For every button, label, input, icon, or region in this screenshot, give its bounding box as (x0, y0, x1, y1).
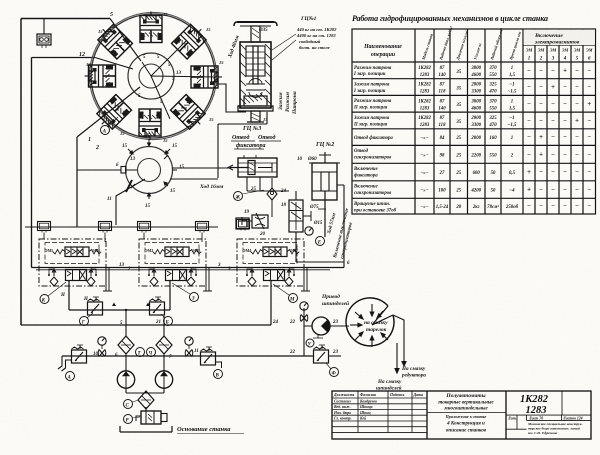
wire pump to lube ring (330, 325, 349, 327)
wire pump risers (126, 310, 164, 371)
solenoid EM1 (138, 222, 151, 233)
valve panel 2 (139, 239, 212, 291)
callout B (161, 314, 173, 326)
lube ring arrows (350, 304, 388, 347)
wire right riser to bus (296, 185, 344, 268)
title block org (527, 422, 584, 435)
pump 2 (155, 371, 172, 388)
chuck cylinder 45 (172, 21, 209, 58)
check valve diamond 24 (267, 178, 277, 217)
small valve box 20 (236, 218, 249, 229)
valve panel 3 (237, 239, 310, 291)
wire from chuck to GC1 bottom (216, 84, 246, 112)
flow arrows on header (112, 303, 150, 307)
title block sheet row (507, 416, 583, 420)
wire distributor feed from left riser (77, 169, 121, 171)
relief valve A (62, 345, 87, 381)
solenoid EM3 (38, 222, 51, 233)
label na smazku shpindeley (376, 379, 402, 392)
gauge with shutoff right (185, 337, 199, 357)
chuck cylinder 135 (95, 21, 132, 58)
chuck cylinder 90 (140, 12, 162, 43)
lube distributor ring (346, 298, 394, 346)
callout R (124, 415, 141, 424)
callout M (273, 284, 298, 303)
wire bus line 13 (32, 267, 345, 269)
wire left outer supply line (21, 19, 110, 326)
callout Zh circle (234, 190, 265, 201)
rotated net label vkl sinhr (333, 207, 354, 259)
tank bracket osnovanie (120, 426, 172, 432)
callout Ch (147, 348, 156, 357)
hub radial lines (142, 41, 216, 119)
wire fixator feeds (170, 168, 289, 191)
wire diagonal from line 5 into chuck hub (110, 19, 141, 62)
filter 6 (118, 336, 134, 354)
accumulator component 26 (37, 19, 51, 49)
label otvod otvod fixatora (232, 134, 276, 149)
callout A (101, 117, 119, 135)
relief valve B (150, 297, 165, 315)
wire main drain line (62, 355, 314, 357)
chuck cylinder 180 (85, 65, 116, 87)
chuck cylinder 270 (139, 109, 161, 140)
cylinder GC1 assembly (234, 22, 277, 122)
wire drain to lube ring (329, 355, 342, 357)
solenoid EM5 (99, 222, 112, 233)
hub pin labels 5 (138, 55, 175, 105)
node 5 junction (125, 309, 127, 311)
label privod shpindeley (321, 293, 349, 307)
shaft tick on diagonal (126, 180, 132, 192)
relief valve G (88, 297, 103, 315)
callout T (136, 348, 145, 357)
wire chuck drain diagonal to panel rail (77, 87, 140, 227)
distributor small circle (126, 147, 173, 194)
annotation GC1 force note (296, 16, 337, 50)
title block frame (332, 391, 591, 439)
throttle block 19 (242, 213, 268, 229)
callout K (40, 282, 66, 304)
filter 7 (156, 336, 172, 354)
relief valve V (201, 347, 223, 379)
fixator cylinder (228, 155, 277, 177)
wire distributor diagonal drain (116, 179, 145, 225)
wire line 22 horizontal (21, 324, 271, 326)
wire pump suction manifold (126, 388, 164, 393)
title block middle texts (438, 393, 494, 434)
callout F (326, 363, 339, 377)
solenoid EM2 (237, 220, 250, 231)
wire panel1 drain drop (68, 281, 70, 310)
wire panel3 drain drop (270, 281, 272, 325)
title block doc number (520, 394, 549, 416)
callout E circle (316, 237, 325, 246)
valve panel 1 (39, 239, 112, 291)
wire spindle pump riser (304, 308, 312, 356)
distributor radial arrows with 15 labels (126, 139, 177, 199)
spindle lube pump (312, 317, 330, 338)
relief valve spindle (314, 345, 329, 363)
cylinder GC2 (309, 152, 340, 237)
wire panel1 solenoid drops (44, 233, 105, 243)
wire left inner supply line 12 (32, 58, 96, 268)
shutoff spindle (300, 315, 308, 322)
callout 3 (172, 283, 199, 302)
gauge spindle (300, 302, 308, 310)
wire solenoid rail (25, 226, 218, 228)
distributor left port fitting (121, 167, 126, 174)
label na smazku reduktora (401, 366, 426, 379)
label na smazku tarelok (364, 320, 388, 333)
callout S (124, 400, 140, 409)
wire lube ring outlet (393, 315, 406, 366)
leader lines to annotation (272, 34, 296, 60)
wire diagonal from line 12 into chuck hub (95, 58, 133, 70)
gauge bottom of stack (305, 227, 313, 235)
chuck cylinder 315 (171, 95, 208, 132)
callout G (80, 313, 94, 326)
suction filter (138, 391, 154, 409)
wire second lube arrow (395, 343, 399, 373)
chuck hub circles (128, 53, 174, 99)
solenoid EM4 (196, 222, 209, 233)
wire GC1 bottom manifold (218, 112, 267, 178)
valve stack 21 (289, 191, 311, 262)
callout U (306, 339, 314, 348)
cycle table (352, 29, 596, 214)
title block left texts (333, 393, 423, 421)
gauge I with shutoff (93, 337, 106, 357)
chuck table outer circle (91, 14, 215, 138)
wire panel2 solenoid drops (144, 233, 202, 243)
pump 1 (117, 371, 134, 388)
chuck cylinder 0 (191, 66, 222, 88)
table header texts (363, 44, 402, 58)
wire pressure header between relief valves (69, 309, 170, 311)
electric motor unit (136, 407, 167, 424)
pin labels 15 around chuck (86, 12, 224, 143)
label zagim razgim patrona rotated (278, 91, 298, 115)
chuck cylinder 225 (94, 95, 131, 132)
table rows text (353, 66, 591, 214)
wire panel2 drain drop (169, 281, 171, 310)
